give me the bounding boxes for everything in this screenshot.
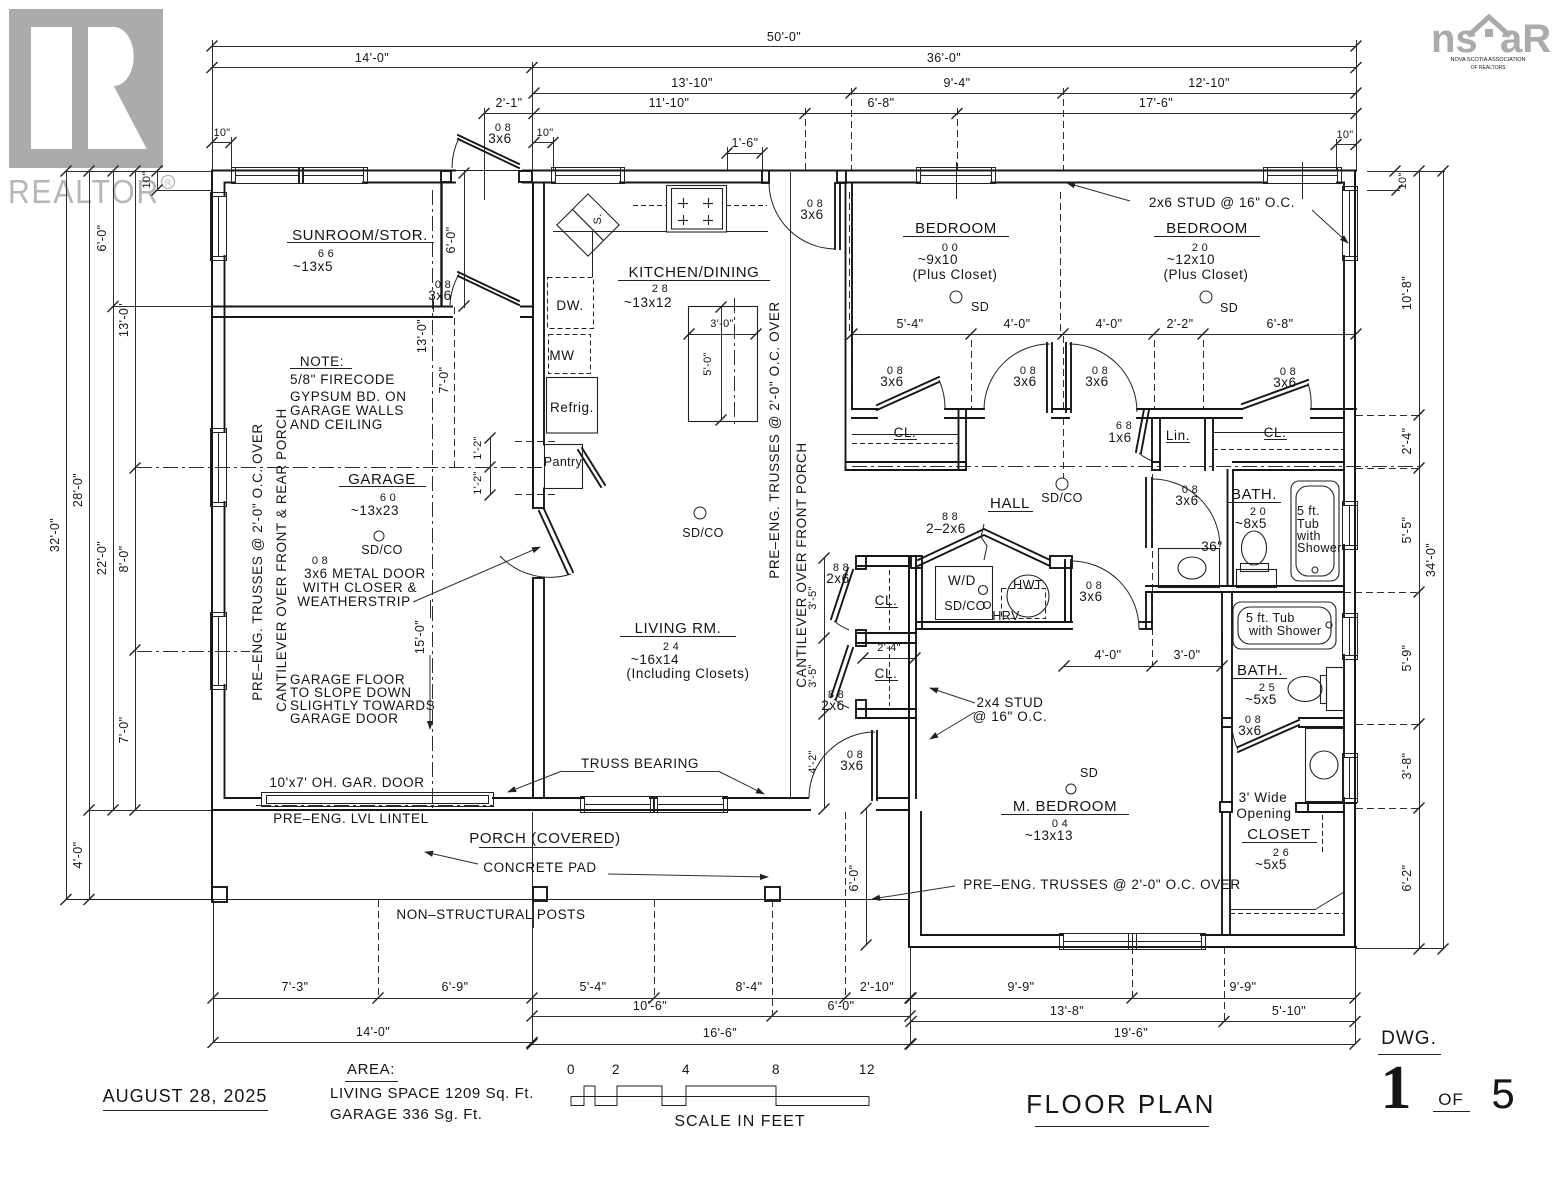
svg-text:~12x10: ~12x10 [1167,252,1215,267]
svg-text:CONCRETE PAD: CONCRETE PAD [483,860,596,875]
svg-text:36'-0": 36'-0" [927,51,961,65]
svg-text:GARAGE: GARAGE [348,471,416,488]
svg-text:4'-0": 4'-0" [71,842,85,869]
svg-text:LIVING RM.: LIVING RM. [635,620,722,637]
svg-text:Shower: Shower [1297,541,1342,555]
svg-text:GYPSUM BD. ON: GYPSUM BD. ON [290,389,407,404]
svg-text:~13x13: ~13x13 [1025,828,1073,843]
svg-text:3'-0": 3'-0" [1174,648,1201,662]
svg-text:CL.: CL. [1264,425,1287,440]
svg-text:~16x14: ~16x14 [631,652,679,667]
svg-text:2x6: 2x6 [826,571,850,586]
svg-text:~13x23: ~13x23 [351,503,399,518]
svg-text:HRV: HRV [992,609,1020,623]
svg-text:5: 5 [1491,1070,1514,1117]
svg-text:7'-0": 7'-0" [117,717,131,744]
svg-text:3x6: 3x6 [840,758,864,773]
svg-text:~13x12: ~13x12 [624,295,672,310]
svg-text:5/8" FIRECODE: 5/8" FIRECODE [290,372,395,387]
svg-text:9'-9": 9'-9" [1008,980,1035,994]
svg-text:3x6: 3x6 [488,131,512,146]
svg-text:2'-1": 2'-1" [496,96,523,110]
svg-text:5 ft.: 5 ft. [1297,504,1320,518]
svg-text:15'-0": 15'-0" [413,620,427,654]
svg-text:SD/CO: SD/CO [1041,491,1083,505]
svg-text:1x6: 1x6 [1108,430,1132,445]
svg-text:2: 2 [612,1062,620,1077]
svg-text:12: 12 [859,1062,875,1077]
svg-text:CL.: CL. [875,666,898,681]
svg-text:3x6 METAL DOOR: 3x6 METAL DOOR [304,566,426,581]
svg-text:2'-4": 2'-4" [1400,428,1414,455]
svg-text:8'-0": 8'-0" [117,546,131,573]
svg-text:SD: SD [971,300,989,314]
svg-text:1'-2": 1'-2" [472,471,484,494]
svg-text:CLOSET: CLOSET [1247,826,1311,843]
svg-text:BEDROOM: BEDROOM [1166,220,1248,237]
svg-text:M. BEDROOM: M. BEDROOM [1013,798,1117,815]
svg-text:PRE–ENG. TRUSSES @ 2'-0" O: PRE–ENG. TRUSSES @ 2'-0" O.C. OVER [250,423,265,701]
svg-text:3x6: 3x6 [1085,374,1109,389]
svg-text:NOVA SCOTIA ASSOCIATION: NOVA SCOTIA ASSOCIATION [1451,57,1526,63]
svg-text:6'-0": 6'-0" [95,225,109,252]
svg-text:3x6: 3x6 [1175,493,1199,508]
svg-text:3' Wide: 3' Wide [1239,790,1288,805]
svg-text:HWT: HWT [1013,578,1043,592]
svg-text:19'-6": 19'-6" [1114,1026,1148,1040]
svg-text:7'-3": 7'-3" [282,980,309,994]
svg-text:OF REALTORS: OF REALTORS [1471,65,1506,71]
svg-text:AREA:: AREA: [347,1061,395,1078]
svg-text:PRE–ENG. TRUSSES @ 2'-0" O: PRE–ENG. TRUSSES @ 2'-0" O.C. OVER [963,877,1241,892]
svg-text:KITCHEN/DINING: KITCHEN/DINING [629,264,760,281]
svg-text:with Shower: with Shower [1248,624,1322,638]
svg-text:CANTILEVER OVER FRONT PORCH: CANTILEVER OVER FRONT PORCH [794,442,809,687]
svg-text:PRE–ENG. LVL LINTEL: PRE–ENG. LVL LINTEL [273,811,428,826]
svg-text:2x6: 2x6 [821,698,845,713]
svg-text:2'-10": 2'-10" [860,980,894,994]
svg-text:CANTILEVER OVER FRONT & RE: CANTILEVER OVER FRONT & REAR PORCH [274,408,289,712]
svg-text:CL.: CL. [875,593,898,608]
svg-text:TRUSS BEARING: TRUSS BEARING [581,756,699,771]
svg-text:14'-0": 14'-0" [355,51,389,65]
svg-text:3'-8": 3'-8" [1400,753,1414,780]
svg-text:(Plus Closet): (Plus Closet) [1163,267,1248,282]
svg-text:6'-0": 6'-0" [847,865,861,892]
svg-text:S.: S. [592,214,604,225]
svg-text:32'-0": 32'-0" [48,518,62,552]
svg-text:10": 10" [1397,172,1409,189]
svg-text:13'-10": 13'-10" [671,76,713,90]
svg-text:SD/CO: SD/CO [944,599,986,613]
svg-text:1: 1 [1381,1054,1412,1122]
svg-text:3x6: 3x6 [1013,374,1037,389]
svg-text:HALL: HALL [990,495,1030,512]
svg-text:GARAGE DOOR: GARAGE DOOR [290,711,399,726]
svg-text:NOTE:: NOTE: [300,354,344,369]
svg-text:10": 10" [1336,129,1353,141]
svg-text:~5x5: ~5x5 [1245,692,1277,707]
svg-text:BEDROOM: BEDROOM [915,220,997,237]
svg-text:ns: ns [1431,17,1478,61]
svg-text:17'-6": 17'-6" [1139,96,1173,110]
svg-text:10'-6": 10'-6" [633,999,667,1013]
svg-text:2x4 STUD: 2x4 STUD [976,695,1043,710]
svg-text:2'-2": 2'-2" [1167,317,1194,331]
svg-text:PRE–ENG. TRUSSES @ 2'-0" O: PRE–ENG. TRUSSES @ 2'-0" O.C. OVER [767,301,782,579]
svg-text:5'-0": 5'-0" [702,352,714,375]
svg-text:3x6: 3x6 [1238,723,1262,738]
svg-text:WITH CLOSER &: WITH CLOSER & [303,580,417,595]
svg-text:5'-4": 5'-4" [897,317,924,331]
svg-text:8: 8 [772,1062,780,1077]
svg-text:Refrig.: Refrig. [550,400,594,415]
svg-text:3x6: 3x6 [880,374,904,389]
svg-text:AUGUST 28, 2025: AUGUST 28, 2025 [103,1086,268,1106]
svg-text:5'-9": 5'-9" [1400,645,1414,672]
svg-text:Lin.: Lin. [1166,428,1190,443]
svg-text:6'-8": 6'-8" [868,96,895,110]
svg-text:10": 10" [141,171,153,188]
svg-text:13'-8": 13'-8" [1050,1004,1084,1018]
svg-text:4'-0": 4'-0" [1096,317,1123,331]
svg-text:~13x5: ~13x5 [293,259,333,274]
svg-text:GARAGE 336 Sg. Ft.: GARAGE 336 Sg. Ft. [330,1106,483,1123]
svg-text:~5x5: ~5x5 [1255,857,1287,872]
svg-text:10'x7' OH. GAR. DOOR: 10'x7' OH. GAR. DOOR [269,775,424,790]
svg-text:SD/CO: SD/CO [682,526,724,540]
svg-text:MW: MW [549,348,574,363]
svg-text:SD/CO: SD/CO [361,543,403,557]
svg-text:5'-10": 5'-10" [1272,1004,1306,1018]
svg-text:BATH.: BATH. [1237,662,1283,679]
svg-text:6'-0": 6'-0" [828,999,855,1013]
svg-text:34'-0": 34'-0" [1424,543,1438,577]
svg-text:FLOOR PLAN: FLOOR PLAN [1026,1089,1216,1119]
svg-text:28'-0": 28'-0" [71,473,85,507]
svg-text:4'-0": 4'-0" [1095,648,1122,662]
svg-text:13'-0": 13'-0" [117,303,131,337]
svg-text:6'-0": 6'-0" [444,227,458,254]
svg-text:SCALE IN FEET: SCALE IN FEET [674,1113,805,1130]
svg-text:BATH.: BATH. [1231,486,1277,503]
svg-text:3x6: 3x6 [800,207,824,222]
svg-text:16'-6": 16'-6" [703,1026,737,1040]
svg-text:SUNROOM/STOR.: SUNROOM/STOR. [292,227,428,244]
svg-text:6'-9": 6'-9" [442,980,469,994]
svg-text:(Including Closets): (Including Closets) [626,666,749,681]
svg-text:SD: SD [1220,301,1238,315]
svg-text:5'-5": 5'-5" [1400,517,1414,544]
svg-text:5'-4": 5'-4" [580,980,607,994]
svg-text:4'-0": 4'-0" [1004,317,1031,331]
svg-text:Opening: Opening [1236,806,1291,821]
svg-text:4'-2": 4'-2" [807,750,819,773]
svg-text:~8x5: ~8x5 [1235,516,1267,531]
svg-text:2x6 STUD @ 16" O.C.: 2x6 STUD @ 16" O.C. [1149,195,1295,210]
svg-text:aR: aR [1500,17,1551,61]
svg-text:DWG.: DWG. [1381,1028,1437,1049]
svg-text:1'-2": 1'-2" [472,436,484,459]
svg-text:OF: OF [1438,1090,1464,1109]
svg-text:22'-0": 22'-0" [95,541,109,575]
svg-text:1'-6": 1'-6" [732,136,759,150]
svg-text:PORCH (COVERED): PORCH (COVERED) [469,830,621,847]
svg-text:10": 10" [536,127,553,139]
svg-text:0: 0 [567,1062,575,1077]
svg-text:R: R [165,178,172,188]
svg-text:W/D: W/D [948,573,976,588]
svg-text:Pantry: Pantry [544,455,583,469]
svg-text:4: 4 [682,1062,690,1077]
svg-text:GARAGE WALLS: GARAGE WALLS [290,403,404,418]
svg-text:CL.: CL. [894,425,917,440]
svg-text:3x6: 3x6 [428,288,452,303]
svg-text:6'-8": 6'-8" [1267,317,1294,331]
svg-text:9'-4": 9'-4" [944,76,971,90]
svg-text:9'-9": 9'-9" [1230,980,1257,994]
svg-text:50'-0": 50'-0" [767,30,801,44]
svg-text:10": 10" [213,127,230,139]
svg-text:5 ft. Tub: 5 ft. Tub [1246,611,1295,625]
svg-text:7'-0": 7'-0" [437,367,451,394]
svg-text:14'-0": 14'-0" [356,1025,390,1039]
svg-text:WEATHERSTRIP: WEATHERSTRIP [297,594,410,609]
svg-text:@ 16" O.C.: @ 16" O.C. [973,709,1048,724]
svg-text:3x6: 3x6 [1273,375,1297,390]
svg-text:~9x10: ~9x10 [918,252,958,267]
svg-text:LIVING SPACE 1209 Sq. Ft.: LIVING SPACE 1209 Sq. Ft. [330,1085,534,1102]
svg-text:DW.: DW. [556,298,583,313]
svg-text:8'-4": 8'-4" [736,980,763,994]
svg-text:REALTOR: REALTOR [8,173,160,210]
svg-text:10'-8": 10'-8" [1400,276,1414,310]
svg-text:13'-0": 13'-0" [415,319,429,353]
svg-text:(Plus Closet): (Plus Closet) [912,267,997,282]
svg-text:2 8: 2 8 [652,283,668,295]
svg-text:11'-10": 11'-10" [649,96,690,110]
svg-text:SD: SD [1080,766,1098,780]
svg-text:NON–STRUCTURAL POSTS: NON–STRUCTURAL POSTS [396,907,585,922]
svg-text:6'-2": 6'-2" [1400,865,1414,892]
svg-text:3x6: 3x6 [1079,589,1103,604]
svg-text:12'-10": 12'-10" [1188,76,1230,90]
svg-text:36": 36" [1201,539,1223,554]
svg-text:2–2x6: 2–2x6 [926,521,966,536]
svg-text:AND CEILING: AND CEILING [290,417,383,432]
